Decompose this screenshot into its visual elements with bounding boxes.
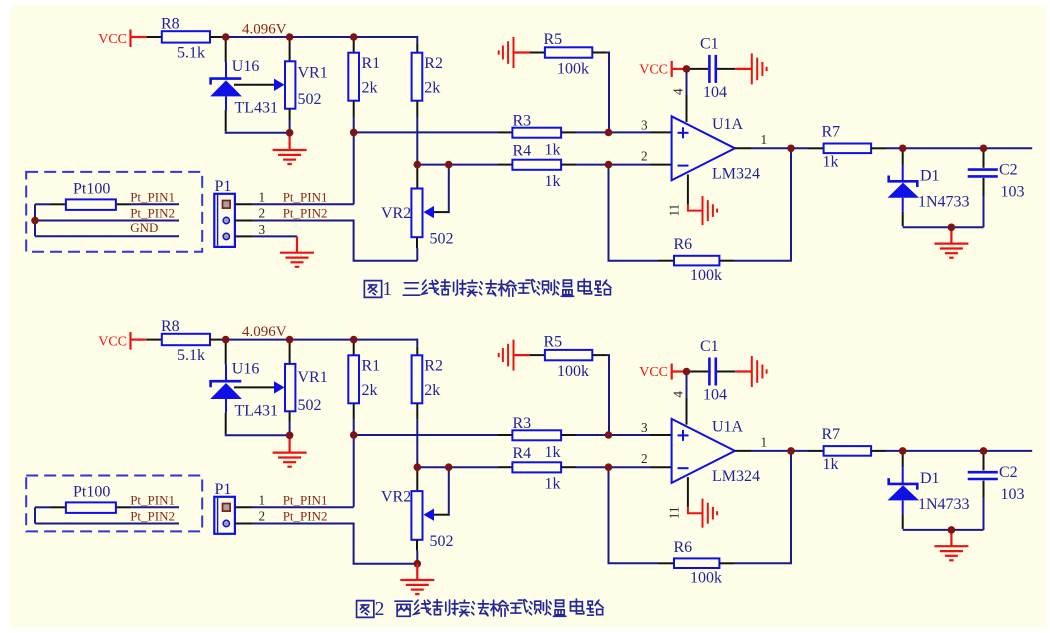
svg-text:D1: D1 (920, 167, 940, 184)
svg-text:100k: 100k (557, 363, 589, 380)
svg-text:4.096V: 4.096V (242, 324, 287, 340)
svg-text:P1: P1 (215, 481, 232, 498)
svg-text:GND: GND (130, 220, 158, 235)
svg-text:3: 3 (259, 222, 266, 237)
svg-text:R3: R3 (513, 415, 532, 432)
svg-text:3: 3 (641, 118, 648, 133)
svg-text:1k: 1k (545, 173, 561, 190)
svg-text:VCC: VCC (639, 365, 668, 380)
svg-text:2k: 2k (424, 80, 440, 97)
svg-text:LM324: LM324 (712, 468, 760, 485)
svg-text:Pt_PIN1: Pt_PIN1 (283, 190, 328, 205)
svg-text:502: 502 (430, 231, 454, 248)
svg-text:VCC: VCC (639, 63, 668, 78)
svg-text:104: 104 (703, 387, 727, 404)
svg-text:U1A: U1A (712, 419, 744, 436)
svg-text:Pt100: Pt100 (73, 180, 110, 197)
svg-text:Pt_PIN2: Pt_PIN2 (283, 509, 328, 524)
svg-text:TL431: TL431 (235, 100, 279, 117)
svg-text:1: 1 (382, 279, 392, 300)
svg-text:2: 2 (641, 451, 648, 466)
svg-text:4.096V: 4.096V (242, 21, 287, 37)
svg-text:2: 2 (375, 599, 385, 620)
svg-text:R5: R5 (544, 31, 563, 48)
svg-text:VR2: VR2 (381, 489, 411, 506)
svg-text:1N4733: 1N4733 (918, 193, 970, 210)
svg-text:R3: R3 (513, 112, 532, 129)
svg-text:R6: R6 (674, 539, 693, 556)
svg-text:R6: R6 (674, 236, 693, 253)
svg-text:R8: R8 (161, 318, 180, 335)
svg-text:Pt_PIN1: Pt_PIN1 (130, 190, 175, 205)
svg-text:VR1: VR1 (298, 65, 328, 82)
svg-text:104: 104 (703, 84, 727, 101)
svg-text:1: 1 (259, 493, 266, 508)
svg-text:103: 103 (1001, 183, 1025, 200)
svg-text:2: 2 (259, 206, 266, 221)
svg-text:5.1k: 5.1k (177, 347, 205, 364)
svg-text:Pt_PIN2: Pt_PIN2 (130, 206, 175, 221)
svg-text:R7: R7 (822, 426, 841, 443)
svg-text:11: 11 (667, 506, 682, 519)
svg-text:103: 103 (1001, 486, 1025, 503)
svg-text:D1: D1 (920, 470, 940, 487)
svg-text:3: 3 (641, 420, 648, 435)
svg-text:TL431: TL431 (235, 402, 279, 419)
svg-text:R4: R4 (513, 142, 532, 159)
svg-text:P1: P1 (215, 178, 232, 195)
svg-text:Pt_PIN2: Pt_PIN2 (283, 206, 328, 221)
svg-text:2k: 2k (424, 382, 440, 399)
svg-text:U1A: U1A (712, 116, 744, 133)
svg-text:1: 1 (761, 435, 768, 450)
svg-text:R1: R1 (362, 55, 381, 72)
svg-text:1N4733: 1N4733 (918, 496, 970, 513)
svg-text:502: 502 (298, 397, 322, 414)
svg-text:Pt100: Pt100 (73, 483, 110, 500)
svg-text:2k: 2k (362, 382, 378, 399)
svg-text:502: 502 (298, 91, 322, 108)
svg-text:Pt_PIN1: Pt_PIN1 (130, 493, 175, 508)
svg-text:VR1: VR1 (298, 369, 328, 386)
svg-text:1: 1 (761, 132, 768, 147)
svg-text:C1: C1 (700, 35, 719, 52)
svg-text:1k: 1k (823, 154, 839, 171)
svg-text:Pt_PIN2: Pt_PIN2 (130, 509, 175, 524)
svg-text:100k: 100k (690, 267, 722, 284)
svg-text:C1: C1 (700, 338, 719, 355)
svg-text:2k: 2k (362, 80, 378, 97)
svg-text:C2: C2 (999, 464, 1018, 481)
svg-text:1k: 1k (823, 456, 839, 473)
svg-text:100k: 100k (557, 61, 589, 78)
svg-text:4: 4 (670, 88, 685, 95)
svg-text:R4: R4 (513, 445, 532, 462)
svg-text:R2: R2 (424, 358, 443, 375)
svg-text:1k: 1k (545, 141, 561, 158)
svg-text:11: 11 (667, 204, 682, 217)
svg-text:1k: 1k (545, 476, 561, 493)
svg-text:C2: C2 (999, 161, 1018, 178)
svg-text:VCC: VCC (98, 32, 127, 47)
svg-text:VR2: VR2 (381, 205, 411, 222)
svg-text:R5: R5 (544, 334, 563, 351)
svg-text:1: 1 (259, 190, 266, 205)
svg-text:2: 2 (259, 509, 266, 524)
svg-text:5.1k: 5.1k (177, 45, 205, 62)
svg-text:R8: R8 (161, 15, 180, 32)
svg-text:R1: R1 (362, 358, 381, 375)
svg-text:VCC: VCC (98, 335, 127, 350)
svg-text:502: 502 (430, 533, 454, 550)
svg-text:R7: R7 (822, 123, 841, 140)
svg-text:2: 2 (641, 149, 648, 164)
svg-text:4: 4 (670, 391, 685, 398)
svg-text:U16: U16 (232, 361, 260, 378)
svg-text:LM324: LM324 (712, 166, 760, 183)
svg-text:U16: U16 (232, 58, 260, 75)
svg-text:R2: R2 (424, 55, 443, 72)
svg-text:1k: 1k (545, 444, 561, 461)
svg-text:100k: 100k (690, 569, 722, 586)
svg-text:Pt_PIN1: Pt_PIN1 (283, 493, 328, 508)
